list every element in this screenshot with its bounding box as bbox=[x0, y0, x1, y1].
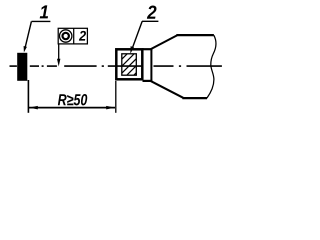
label 2 leader bbox=[132, 21, 142, 48]
cable collar bbox=[150, 48, 152, 82]
symbol inner circle bbox=[62, 33, 68, 39]
dimension arrow left bbox=[29, 106, 38, 110]
frame divider bbox=[73, 28, 75, 44]
wire lead / left extension line bbox=[27, 80, 29, 113]
label 1 arrowhead bbox=[24, 46, 27, 52]
dimension line bbox=[29, 107, 115, 109]
inspection symbol frame bbox=[58, 28, 87, 44]
label 2 shelf bbox=[142, 20, 158, 22]
cable entry top stub bbox=[143, 48, 153, 50]
cable flare top bbox=[151, 35, 177, 49]
connector body (item 2 housing) bbox=[116, 49, 142, 79]
label 2 text bbox=[147, 6, 157, 19]
right extension line bbox=[115, 81, 117, 113]
label 1 leader bbox=[25, 21, 31, 47]
break line bbox=[207, 35, 216, 98]
terminal pad (item 1, solder lug) bbox=[17, 53, 27, 81]
frame leader line bbox=[58, 44, 60, 61]
dimension arrow right bbox=[106, 106, 115, 110]
frame number 2 bbox=[79, 31, 86, 41]
label 1 text bbox=[40, 5, 48, 18]
dimension text R>=50 bbox=[58, 94, 87, 105]
label 2 arrowhead bbox=[130, 46, 134, 54]
cable top outline bbox=[176, 34, 214, 36]
cable flare bottom bbox=[151, 81, 183, 98]
cable entry bottom stub bbox=[143, 80, 153, 82]
symbol outer circle bbox=[59, 30, 71, 42]
centerline (wire axis, dash-dot) bbox=[10, 65, 222, 67]
crimp sleeve (hatched) bbox=[117, 49, 141, 80]
cable bottom outline bbox=[182, 97, 207, 99]
frame leader arrowhead bbox=[57, 59, 60, 67]
label 1 shelf bbox=[32, 20, 51, 22]
